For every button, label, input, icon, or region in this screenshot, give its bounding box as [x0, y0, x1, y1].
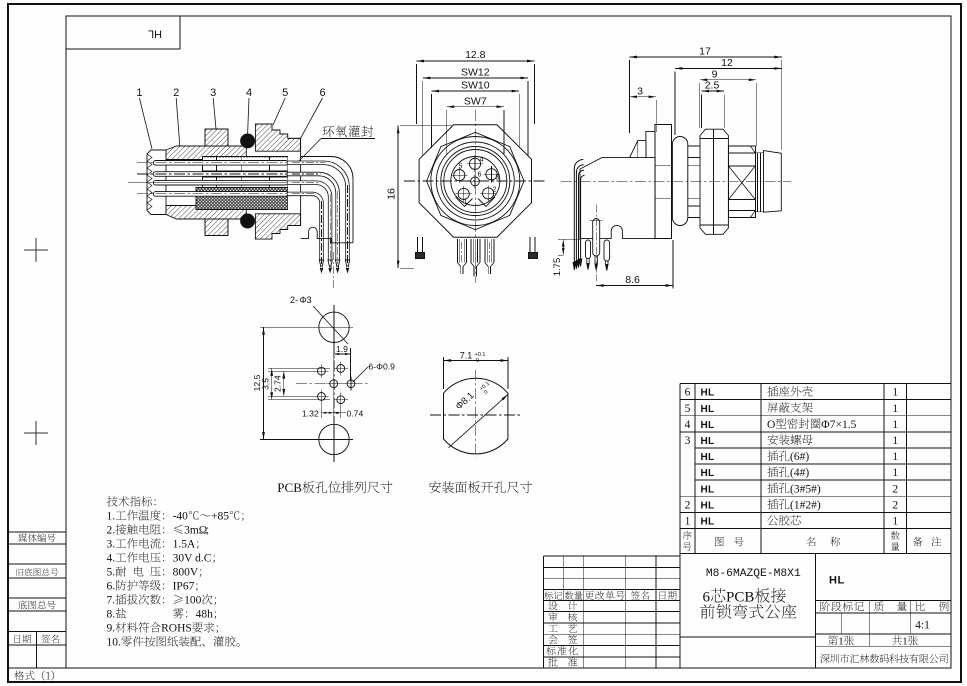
- svg-text:1: 1: [685, 516, 691, 528]
- svg-text:1.9: 1.9: [336, 344, 348, 354]
- svg-text:5: 5: [458, 164, 462, 171]
- svg-text:2.5: 2.5: [705, 80, 720, 92]
- svg-text:5: 5: [685, 403, 691, 415]
- svg-text:ROHS: ROHS: [161, 623, 192, 635]
- svg-text:1.32: 1.32: [302, 409, 319, 419]
- svg-text:HL: HL: [701, 468, 715, 479]
- svg-text:HL: HL: [148, 28, 162, 40]
- svg-text:1: 1: [892, 516, 898, 528]
- svg-text:1: 1: [892, 467, 898, 479]
- svg-text:3: 3: [685, 435, 691, 447]
- svg-text:1.5A: 1.5A: [173, 539, 196, 551]
- svg-text:6.: 6.: [107, 581, 116, 593]
- svg-text:9.: 9.: [107, 623, 116, 635]
- svg-text:10.: 10.: [107, 637, 122, 649]
- svg-text:SW7: SW7: [464, 95, 487, 107]
- svg-text:1.75: 1.75: [552, 258, 563, 277]
- svg-text:PCB: PCB: [726, 590, 754, 606]
- svg-text:48h: 48h: [196, 609, 214, 621]
- svg-text:4:1: 4:1: [915, 620, 930, 632]
- svg-text:1: 1: [838, 636, 843, 648]
- svg-text:1: 1: [892, 419, 898, 431]
- svg-text:1: 1: [136, 87, 142, 99]
- svg-text:2.: 2.: [107, 525, 116, 537]
- svg-text:4: 4: [685, 419, 691, 431]
- svg-text:HL: HL: [701, 436, 715, 447]
- svg-text:2: 2: [892, 483, 898, 495]
- svg-text:3: 3: [496, 175, 500, 182]
- svg-text:PCB: PCB: [277, 480, 302, 495]
- svg-text:3.: 3.: [107, 539, 116, 551]
- svg-text:HL: HL: [701, 500, 715, 511]
- svg-text:O: O: [767, 419, 775, 431]
- svg-text:1: 1: [892, 451, 898, 463]
- svg-text:(6#): (6#): [790, 451, 809, 463]
- svg-text:1: 1: [892, 387, 898, 399]
- svg-text:SW12: SW12: [461, 67, 490, 79]
- svg-text:(4#): (4#): [790, 467, 809, 479]
- svg-text:IP67: IP67: [173, 581, 195, 593]
- svg-text:16: 16: [386, 188, 398, 200]
- svg-text:3mΩ: 3mΩ: [184, 525, 207, 537]
- svg-text:4.: 4.: [107, 553, 116, 565]
- svg-text:2: 2: [173, 87, 179, 99]
- svg-text:2: 2: [492, 187, 496, 194]
- svg-text:HL: HL: [701, 404, 715, 415]
- svg-text:4: 4: [246, 87, 252, 99]
- svg-text:6: 6: [319, 87, 325, 99]
- svg-text:30V d.C: 30V d.C: [173, 553, 212, 565]
- svg-text:Φ3: Φ3: [300, 295, 312, 305]
- svg-text:3: 3: [637, 85, 643, 97]
- svg-text:HL: HL: [701, 420, 715, 431]
- svg-text:(3#5#): (3#5#): [790, 483, 821, 495]
- svg-text:HL: HL: [701, 484, 715, 495]
- svg-text:1: 1: [463, 199, 467, 206]
- svg-text:7.1: 7.1: [460, 351, 473, 361]
- svg-text:0: 0: [476, 358, 479, 364]
- svg-text:100: 100: [184, 595, 202, 607]
- svg-text:3: 3: [210, 87, 216, 99]
- svg-text:(1#2#): (1#2#): [790, 499, 821, 511]
- svg-text:7.: 7.: [107, 595, 116, 607]
- svg-text:HL: HL: [701, 517, 715, 528]
- svg-text:2.74: 2.74: [273, 375, 283, 392]
- svg-text:9: 9: [712, 69, 718, 81]
- svg-text:SW10: SW10: [461, 80, 490, 92]
- svg-text:5.: 5.: [107, 567, 116, 579]
- svg-text:6: 6: [477, 172, 481, 179]
- svg-text:0.74: 0.74: [347, 409, 364, 419]
- svg-text:2-: 2-: [290, 295, 298, 305]
- svg-text:8.6: 8.6: [625, 274, 640, 286]
- svg-text:6-Φ0.9: 6-Φ0.9: [369, 362, 396, 372]
- svg-text:12.8: 12.8: [465, 49, 486, 61]
- svg-text:1: 1: [902, 636, 907, 648]
- svg-text:6: 6: [685, 387, 691, 399]
- svg-text:-40: -40: [173, 511, 189, 523]
- svg-text:Φ7×1.5: Φ7×1.5: [821, 419, 856, 431]
- svg-text:3.5: 3.5: [261, 378, 271, 390]
- svg-text:1.: 1.: [107, 511, 116, 523]
- svg-text:HL: HL: [829, 575, 845, 587]
- svg-text:2: 2: [892, 499, 898, 511]
- svg-text:HL: HL: [701, 452, 715, 463]
- svg-text:1: 1: [892, 435, 898, 447]
- svg-text:12: 12: [721, 57, 733, 69]
- svg-text:800V: 800V: [173, 567, 199, 579]
- svg-text:6: 6: [703, 590, 711, 606]
- svg-text:M8-6MAZQE-M8X1: M8-6MAZQE-M8X1: [706, 568, 801, 580]
- svg-text:HL: HL: [701, 388, 715, 399]
- svg-text:+85: +85: [211, 511, 229, 523]
- svg-text:17: 17: [699, 46, 711, 58]
- svg-text:1: 1: [892, 403, 898, 415]
- svg-text:2: 2: [685, 499, 691, 511]
- svg-text:5: 5: [282, 87, 288, 99]
- svg-text:8.: 8.: [107, 609, 116, 621]
- svg-text:4: 4: [480, 157, 484, 164]
